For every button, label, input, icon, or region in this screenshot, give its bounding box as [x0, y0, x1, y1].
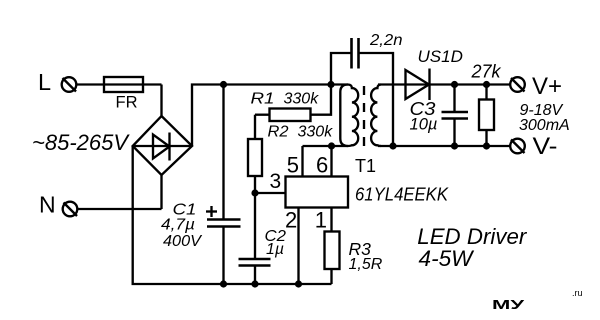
svg-text:4-5W: 4-5W — [419, 246, 475, 271]
svg-text:V-: V- — [533, 133, 558, 160]
svg-text:3: 3 — [270, 170, 282, 193]
svg-text:330k: 330k — [284, 91, 320, 108]
svg-text:330k: 330k — [298, 124, 334, 141]
svg-text:2: 2 — [285, 207, 297, 232]
svg-text:27k: 27k — [471, 61, 502, 81]
svg-text:4,7µ: 4,7µ — [161, 217, 195, 234]
svg-text:.ru: .ru — [572, 288, 583, 298]
svg-text:МУ: МУ — [492, 297, 526, 312]
svg-text:L: L — [38, 69, 51, 95]
svg-text:61YL4EEKK: 61YL4EEKK — [355, 184, 449, 204]
svg-text:R1: R1 — [251, 91, 275, 108]
svg-text:R2: R2 — [268, 124, 289, 141]
svg-text:~85-265V: ~85-265V — [32, 130, 130, 155]
svg-text:6: 6 — [316, 152, 328, 177]
svg-text:400V: 400V — [163, 233, 202, 250]
svg-text:300mA: 300mA — [519, 117, 570, 134]
svg-text:N: N — [39, 192, 56, 218]
svg-text:1µ: 1µ — [266, 241, 284, 258]
svg-text:US1D: US1D — [418, 47, 463, 66]
svg-text:1,5R: 1,5R — [349, 256, 383, 273]
svg-text:FR: FR — [116, 93, 138, 111]
svg-text:1: 1 — [315, 207, 327, 232]
svg-text:2,2n: 2,2n — [369, 32, 403, 49]
svg-text:5: 5 — [287, 152, 299, 177]
svg-text:10µ: 10µ — [410, 115, 438, 134]
svg-text:T1: T1 — [355, 156, 376, 176]
svg-text:V+: V+ — [532, 73, 562, 100]
